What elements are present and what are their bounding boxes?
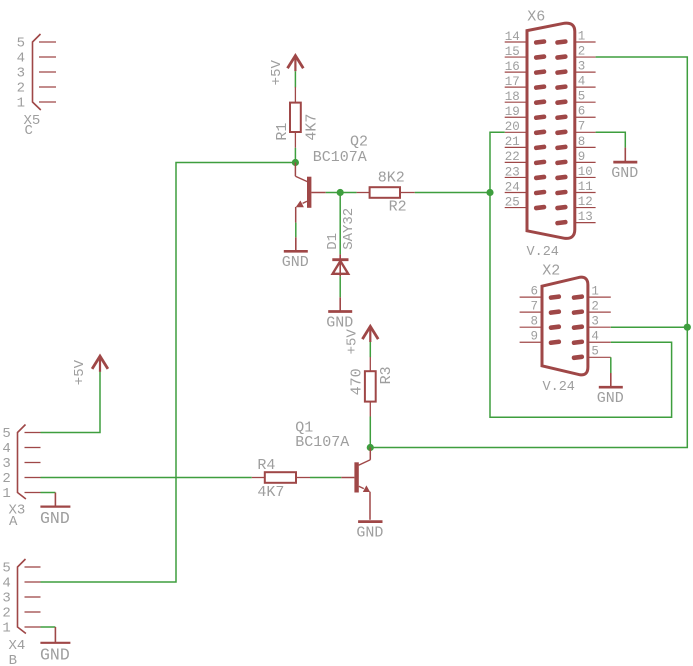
supply +5V (X3): [92, 356, 108, 372]
value 8K2 (R2): [378, 170, 405, 187]
svg-text:BC107A: BC107A: [295, 434, 349, 451]
ground (X3 pin1): [40, 493, 70, 529]
svg-text:8: 8: [578, 135, 586, 149]
svg-text:GND: GND: [40, 645, 70, 664]
value 470 (R3): [349, 368, 366, 395]
svg-text:2: 2: [578, 44, 586, 58]
junction node Q2 collector: [292, 159, 299, 166]
svg-text:8: 8: [530, 315, 538, 329]
supply +5V (top): [288, 56, 304, 72]
svg-text:GND: GND: [326, 314, 353, 331]
svg-text:9: 9: [530, 330, 538, 344]
svg-text:4K7: 4K7: [257, 484, 284, 501]
junction node X2 pin3: [684, 324, 691, 331]
connector X6 right pin numbers: [578, 29, 593, 224]
ground (Q2 emitter): [282, 237, 309, 271]
wire X6 pin20 to X2 pin4 loop: [490, 132, 672, 417]
svg-text:4: 4: [2, 441, 10, 457]
connector X3 pin numbers: [2, 426, 10, 502]
wire X2 pin5 to GND: [610, 357, 612, 373]
wire X3 pin2 to R4: [41, 477, 252, 479]
wire X4 pin1 to GND: [41, 626, 56, 628]
wire X3 pin5 to +5V: [41, 372, 101, 433]
connector X2 left pins 6-9: [520, 294, 562, 345]
svg-text:3: 3: [2, 456, 10, 472]
diode D1: [332, 254, 348, 276]
svg-text:1: 1: [578, 29, 586, 43]
svg-text:16: 16: [505, 60, 520, 74]
svg-text:14: 14: [505, 30, 520, 44]
svg-text:7: 7: [530, 300, 538, 314]
connector X4 pin numbers: [2, 561, 10, 637]
svg-text:4K7: 4K7: [303, 114, 320, 141]
svg-text:1: 1: [2, 486, 10, 502]
connector X6 left pin numbers: [505, 30, 520, 210]
wire Q2 base to R2: [326, 192, 357, 194]
svg-text:9: 9: [578, 150, 586, 164]
wire X3 pin1 to GND: [41, 492, 56, 494]
svg-text:+5V: +5V: [72, 359, 88, 385]
svg-text:12: 12: [578, 195, 593, 209]
svg-text:R3: R3: [378, 366, 395, 384]
svg-text:2: 2: [17, 81, 25, 97]
label R1: [274, 123, 291, 141]
svg-text:GND: GND: [597, 390, 624, 407]
ground (D1): [326, 297, 353, 331]
wire X6 pin2 to Q1 collector node: [370, 57, 687, 447]
svg-text:3: 3: [591, 315, 599, 329]
label R3: [378, 366, 395, 384]
svg-text:3: 3: [17, 66, 25, 82]
svg-text:6: 6: [530, 285, 538, 299]
svg-text:GND: GND: [611, 165, 638, 182]
svg-text:D1: D1: [325, 233, 341, 250]
label D1: [325, 233, 341, 250]
connector X2 right pin numbers: [591, 285, 599, 359]
wire +5V to R3: [369, 342, 371, 357]
value V.24 (X2): [543, 380, 575, 395]
wire +5V to R1: [294, 71, 296, 87]
wire node to D1: [339, 193, 341, 255]
connector X6 shell: [527, 23, 575, 238]
svg-text:GND: GND: [356, 524, 383, 541]
transistor Q1: [341, 448, 370, 520]
wire R4 to Q1 base: [310, 477, 341, 479]
svg-text:3: 3: [2, 591, 10, 607]
svg-text:10: 10: [578, 165, 593, 179]
svg-text:1: 1: [2, 621, 10, 637]
ground (Q1 emitter): [356, 522, 383, 542]
connector X2 right pins 1-5: [571, 294, 610, 360]
connector X2 left pin numbers: [530, 285, 538, 344]
wire X6 pin7 to GND: [596, 132, 626, 147]
svg-text:R2: R2: [389, 198, 407, 215]
wire Q2 emitter to GND: [295, 223, 297, 238]
value BC107A (Q1): [295, 434, 349, 451]
label X4 B: [9, 638, 26, 666]
svg-text:18: 18: [505, 90, 520, 104]
svg-text:8K2: 8K2: [378, 170, 405, 187]
connector X6 right pins 1-13: [555, 39, 596, 226]
svg-text:B: B: [9, 653, 17, 666]
svg-text:GND: GND: [40, 509, 70, 528]
svg-text:5: 5: [17, 36, 25, 52]
svg-text:X2: X2: [542, 262, 560, 279]
value BC107A (Q2): [313, 149, 367, 166]
label X3 A: [9, 503, 26, 531]
connector X5: [33, 34, 57, 110]
svg-text:C: C: [25, 123, 33, 139]
svg-text:1: 1: [591, 285, 599, 299]
svg-text:7: 7: [578, 120, 586, 134]
svg-text:17: 17: [505, 75, 520, 89]
svg-text:470: 470: [349, 368, 366, 395]
svg-text:15: 15: [505, 45, 520, 59]
resistor R3: [365, 357, 376, 417]
label X2: [542, 262, 560, 279]
svg-text:3: 3: [578, 60, 586, 74]
svg-text:4: 4: [591, 330, 599, 344]
junction node R2/loop: [486, 189, 493, 196]
resistor R2: [357, 187, 415, 198]
resistor R1: [290, 87, 301, 148]
value 4K7 (R4): [257, 484, 284, 501]
svg-text:+5V: +5V: [269, 59, 285, 85]
svg-text:5: 5: [578, 90, 586, 104]
ground (X6 pin7): [611, 148, 638, 182]
svg-text:A: A: [9, 514, 18, 530]
svg-text:V.24: V.24: [527, 245, 559, 260]
svg-text:1: 1: [17, 96, 25, 112]
svg-text:22: 22: [505, 150, 520, 164]
svg-text:6: 6: [578, 105, 586, 119]
svg-text:5: 5: [2, 426, 10, 442]
wire R3 to Q1 collector node: [369, 417, 371, 448]
svg-text:Q2: Q2: [350, 134, 368, 151]
svg-text:SAY32: SAY32: [341, 208, 357, 250]
connector X2 shell: [542, 277, 588, 375]
svg-text:5: 5: [591, 345, 599, 359]
ground (X2 pin5): [597, 373, 624, 407]
value V.24 (X6): [527, 245, 559, 260]
label R2: [389, 198, 407, 215]
svg-text:GND: GND: [282, 254, 309, 271]
svg-text:X4: X4: [9, 638, 26, 654]
connector X4: [18, 559, 41, 634]
wire R2 to loop junction: [415, 192, 490, 194]
svg-text:+5V: +5V: [345, 329, 361, 355]
connector X5 pin numbers: [17, 36, 25, 112]
svg-text:21: 21: [505, 135, 520, 149]
svg-text:2: 2: [2, 471, 10, 487]
svg-text:R1: R1: [274, 123, 291, 141]
label X5 C: [24, 113, 41, 139]
label +5V (R3): [345, 329, 361, 355]
svg-text:13: 13: [578, 210, 593, 224]
label R4: [257, 457, 275, 474]
svg-text:2: 2: [2, 606, 10, 622]
svg-text:11: 11: [578, 180, 593, 194]
svg-text:BC107A: BC107A: [313, 149, 367, 166]
label Q2: [350, 134, 368, 151]
svg-text:R4: R4: [257, 457, 275, 474]
value 4K7 (R1): [303, 114, 320, 141]
transistor Q2: [295, 163, 325, 223]
connector X6 left pins 14-25: [505, 39, 547, 211]
resistor R4: [252, 472, 310, 483]
svg-text:4: 4: [2, 576, 10, 592]
wire D1 to GND: [339, 276, 341, 297]
svg-text:24: 24: [505, 180, 520, 194]
value SAY32 (D1): [341, 208, 357, 250]
ground (X4 pin1): [40, 627, 70, 664]
svg-text:20: 20: [505, 120, 520, 134]
junction node base/D1: [337, 189, 344, 196]
svg-text:2: 2: [591, 300, 599, 314]
svg-text:19: 19: [505, 105, 520, 119]
svg-text:5: 5: [2, 561, 10, 577]
svg-text:25: 25: [505, 195, 520, 209]
svg-text:23: 23: [505, 165, 520, 179]
svg-text:4: 4: [578, 75, 586, 89]
wire R1 to collector node: [294, 148, 296, 163]
wire collector node to X4 pin 4: [41, 163, 296, 583]
svg-text:X6: X6: [527, 9, 545, 26]
connector X3: [18, 425, 41, 500]
svg-text:V.24: V.24: [543, 380, 575, 395]
label +5V (X3): [72, 359, 88, 385]
junction node Q1 collector: [367, 444, 374, 451]
wire X2 pin3 to node: [611, 326, 688, 328]
label X6: [527, 9, 545, 26]
label Q1: [295, 419, 313, 436]
supply +5V (R3): [362, 326, 378, 342]
label +5V (top): [269, 59, 285, 85]
svg-text:4: 4: [17, 51, 25, 67]
